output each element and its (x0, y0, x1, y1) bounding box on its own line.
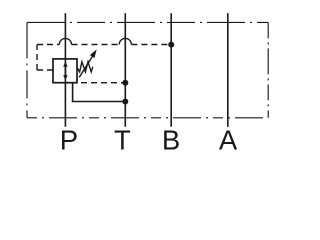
valve body (pressure relief valve square) (53, 59, 77, 83)
tank return wire: vertical from valve bottom (72, 83, 74, 102)
svg-text:B: B (162, 125, 180, 156)
enclosure border bottom (chain line) (27, 117, 268, 119)
flow path double arrow inside valve (63, 62, 67, 81)
crossover arc jump over T (119, 38, 131, 44)
pilot line: dashed from valve left edge to corner (37, 69, 53, 71)
pilot line: dashed vertical riser (36, 45, 38, 71)
port line B (170, 13, 172, 127)
junction dot pilot line on B (168, 42, 174, 48)
crossover arc jump over P (59, 38, 71, 44)
enclosure border top (chain line) (27, 21, 268, 23)
svg-text:P: P (60, 125, 78, 156)
port line P (64, 13, 66, 127)
spring (zigzag) on valve right side (77, 62, 93, 72)
adjustability arrow through spring (79, 49, 97, 77)
tank return wire: horizontal to T (72, 101, 126, 103)
svg-text:A: A (219, 125, 238, 156)
junction dot drain on T (122, 80, 128, 86)
drain line: dashed from valve bottom-right corner to T (77, 82, 125, 84)
pilot line: dashed horizontal run to B (37, 44, 171, 46)
port line A (227, 13, 229, 127)
port line T (124, 13, 126, 127)
junction dot return on T (122, 99, 128, 105)
enclosure border right (chain line) (267, 22, 269, 117)
svg-text:T: T (114, 125, 131, 156)
enclosure border left (chain line) (26, 22, 28, 117)
